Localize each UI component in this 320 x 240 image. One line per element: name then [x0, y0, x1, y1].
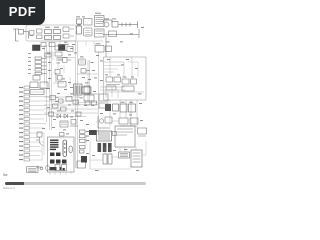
IC U6: [106, 77, 121, 90]
label J3 pin names: [19, 87, 23, 129]
diode D9: [138, 128, 147, 136]
capacitor C9: [76, 101, 97, 116]
connector J4 pin rows: [24, 131, 30, 161]
capacitor C6: [58, 82, 66, 88]
label U3 ref: [65, 43, 69, 46]
capacitor C5: [55, 70, 62, 83]
gate U8f: [61, 107, 67, 111]
diode D7: [64, 114, 68, 118]
fuse F2: [36, 166, 43, 170]
transformer T1: [77, 19, 82, 34]
gate U8c: [66, 97, 72, 102]
label J2 pins: [28, 53, 31, 74]
wire mesh extras: [30, 42, 146, 176]
capacitor C8: [45, 47, 73, 58]
varistor RV2: [63, 27, 74, 38]
wire secondary verticals: [45, 43, 99, 135]
motor M1: [104, 20, 138, 28]
sensor B1: [98, 116, 112, 128]
fuse F1: [45, 30, 61, 34]
IC U12 dark block: [89, 130, 97, 135]
transistor Q6: [70, 120, 78, 127]
resistor R1: [37, 29, 43, 39]
label U7 ref: [123, 76, 135, 79]
gate U8e: [53, 104, 59, 108]
IC U5: [95, 46, 112, 53]
regulator U2: [95, 16, 105, 38]
connector J2 block: [33, 45, 41, 51]
resistor network RN1: [55, 46, 62, 60]
footer caption: [3, 186, 15, 190]
EEPROM U14 dark block: [81, 156, 87, 163]
connector J6: [55, 165, 67, 171]
IC U15: [60, 121, 68, 127]
diode row D2: [35, 61, 47, 64]
diode row D5: [35, 72, 47, 75]
thermostat S2: [103, 29, 139, 57]
wire center ladder: [44, 97, 98, 117]
wire top runs: [46, 41, 103, 83]
gate U8a: [50, 96, 59, 100]
label U2 ref: [95, 12, 101, 15]
wire fanout from J3: [30, 88, 50, 129]
triac bank Q1: [97, 131, 112, 141]
keypad matrix S3: [50, 140, 59, 151]
IC U11: [99, 94, 108, 108]
diode D6: [57, 114, 61, 118]
relay K1: [30, 82, 48, 95]
switch S7: [36, 132, 44, 146]
relay K3: [120, 104, 136, 112]
connector P1 mains plug: [13, 29, 29, 41]
capacitor C1: [30, 31, 35, 36]
diode row D3: [35, 65, 47, 68]
module box M2 outline: [104, 57, 147, 100]
gate U8b: [59, 99, 64, 103]
diode row D1: [35, 57, 47, 60]
IC U7: [122, 79, 137, 91]
label scatter texts: [30, 27, 144, 171]
IC U4: [79, 59, 86, 65]
rectifier BR1: [84, 19, 93, 37]
diode D8: [33, 76, 40, 81]
label J4 pin names: [19, 132, 23, 160]
wire risers bottom right: [86, 135, 136, 169]
relay K2: [105, 104, 119, 111]
gate U8d: [73, 100, 79, 104]
label legend glyphs: [50, 167, 65, 170]
display DS1: [131, 150, 142, 167]
label L1 value: [45, 26, 59, 29]
switch S4: [69, 146, 72, 153]
progress bar fill: [5, 182, 24, 185]
terminal block TB2: [27, 167, 39, 173]
connector J5 rows: [80, 130, 86, 153]
label U5 ref: [96, 42, 101, 45]
terminal block TB1: [103, 154, 112, 164]
line filter box LF1: [26, 25, 76, 41]
comparator U3: [59, 45, 66, 51]
wire net right top: [75, 87, 137, 128]
label K3 ref: [121, 101, 134, 104]
button S6: [50, 160, 67, 164]
connector J3 pin rows: [24, 86, 30, 130]
buzzer LS1: [45, 166, 50, 171]
IC U10: [82, 87, 98, 101]
relay bank K4: [98, 132, 117, 153]
controller box U13: [115, 126, 135, 147]
label J5 pins: [86, 131, 89, 141]
transistor Q4: [81, 69, 90, 74]
LED bar DS2: [63, 140, 67, 157]
transformer T2: [74, 84, 91, 95]
connector J7: [77, 161, 86, 168]
wire box M2 internal: [104, 57, 144, 92]
breaker CB1: [60, 133, 65, 137]
page caption: [3, 173, 7, 177]
wire main vertical spine: [76, 41, 78, 168]
varistor RV1: [119, 152, 130, 158]
transistor Q3: [58, 58, 71, 63]
transistor Q5: [49, 112, 54, 116]
button S5: [50, 153, 61, 157]
progress bar track: [5, 182, 146, 185]
PDF badge: [0, 0, 45, 25]
capacitor C2: [41, 43, 55, 47]
diode row D4: [35, 68, 47, 71]
label M1 ref: [104, 18, 116, 21]
PDF badge label: [0, 4, 45, 19]
control panel box outline: [48, 137, 75, 172]
label T1 ref: [76, 16, 85, 19]
heater R9: [119, 118, 138, 126]
choke L1: [45, 36, 61, 40]
